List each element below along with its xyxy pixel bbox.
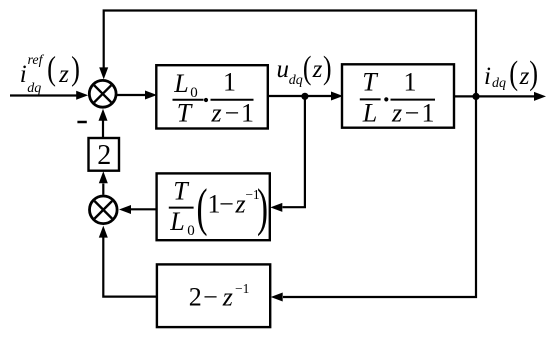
svg-text:T: T bbox=[362, 68, 378, 97]
svg-text:z: z bbox=[391, 99, 402, 128]
svg-text:z: z bbox=[234, 190, 245, 219]
block G3: T/L0 (1 - z^-1) bbox=[157, 173, 270, 240]
wire: bottom feedback from output node into block G4 bbox=[271, 96, 476, 301]
svg-text:−1: −1 bbox=[235, 281, 249, 296]
label: i_dq^ref(z) input signal bbox=[20, 49, 80, 96]
svg-text:u: u bbox=[276, 56, 289, 83]
svg-text:ref: ref bbox=[28, 53, 45, 68]
svg-text:0: 0 bbox=[190, 85, 198, 101]
wire: G1 to block G2 bbox=[268, 92, 344, 101]
svg-text:): ) bbox=[529, 54, 538, 92]
svg-text:L: L bbox=[362, 99, 377, 128]
svg-text:−: − bbox=[225, 99, 240, 128]
svg-text:): ) bbox=[323, 50, 332, 86]
svg-text:z: z bbox=[222, 283, 233, 312]
wire: top feedback from output node to S1 bbox=[99, 11, 476, 97]
svg-text:2: 2 bbox=[189, 283, 202, 312]
svg-text:): ) bbox=[257, 179, 268, 236]
svg-text:2: 2 bbox=[97, 140, 111, 171]
svg-text:−: − bbox=[219, 190, 234, 219]
svg-text:(: ( bbox=[47, 49, 56, 87]
block K: gain 2 bbox=[89, 138, 120, 171]
svg-text:L: L bbox=[173, 69, 188, 98]
svg-text:z: z bbox=[210, 99, 221, 128]
summing junction S2 (lower) bbox=[90, 196, 118, 224]
node: u_dq branch point bbox=[301, 93, 308, 100]
svg-text:dq: dq bbox=[27, 81, 41, 96]
wire: S1 to block G1 bbox=[116, 91, 157, 100]
svg-text:T: T bbox=[173, 177, 189, 206]
svg-text:): ) bbox=[71, 49, 80, 87]
svg-text:−: − bbox=[203, 283, 218, 312]
svg-text:1: 1 bbox=[404, 68, 417, 97]
minus sign at S1 lower-left bbox=[77, 121, 86, 124]
label: u_dq(z) bbox=[276, 50, 331, 88]
svg-text:1: 1 bbox=[241, 99, 254, 128]
svg-text:1: 1 bbox=[422, 99, 435, 128]
svg-text:(: ( bbox=[509, 54, 518, 92]
summing junction S1 (upper) bbox=[89, 80, 116, 107]
wire: K to S1 bbox=[99, 109, 108, 138]
svg-text:1: 1 bbox=[223, 68, 236, 97]
block G2: T/L * 1/(z-1) bbox=[342, 64, 454, 127]
block G4: 2 - z^-1 bbox=[157, 264, 270, 327]
svg-text:(: ( bbox=[303, 50, 312, 86]
label: i_dq(z) output signal bbox=[484, 54, 538, 92]
svg-text:T: T bbox=[177, 99, 193, 128]
wire: G4 to S2 bbox=[99, 226, 157, 297]
svg-text:dq: dq bbox=[492, 76, 506, 91]
svg-text:z: z bbox=[519, 63, 530, 90]
svg-text:dq: dq bbox=[289, 73, 303, 88]
node: output branch point bbox=[472, 93, 479, 100]
svg-text:L: L bbox=[169, 207, 184, 236]
wire: input line into summing junction S1 bbox=[10, 91, 88, 100]
wire: G3 to S2 bbox=[119, 205, 157, 214]
svg-text:z: z bbox=[58, 61, 69, 88]
svg-text:0: 0 bbox=[187, 223, 195, 239]
svg-text:−: − bbox=[405, 99, 420, 128]
svg-text:i: i bbox=[484, 63, 491, 90]
svg-text:(: ( bbox=[196, 179, 207, 236]
svg-text:i: i bbox=[20, 61, 27, 88]
wire: u_dq node down into block G3 bbox=[270, 96, 305, 211]
wire: G2 to output bbox=[454, 92, 546, 101]
svg-text:z: z bbox=[312, 56, 323, 83]
wire: S2 to K bbox=[99, 171, 108, 195]
block G1: L0/T * 1/(z-1) bbox=[156, 65, 267, 128]
